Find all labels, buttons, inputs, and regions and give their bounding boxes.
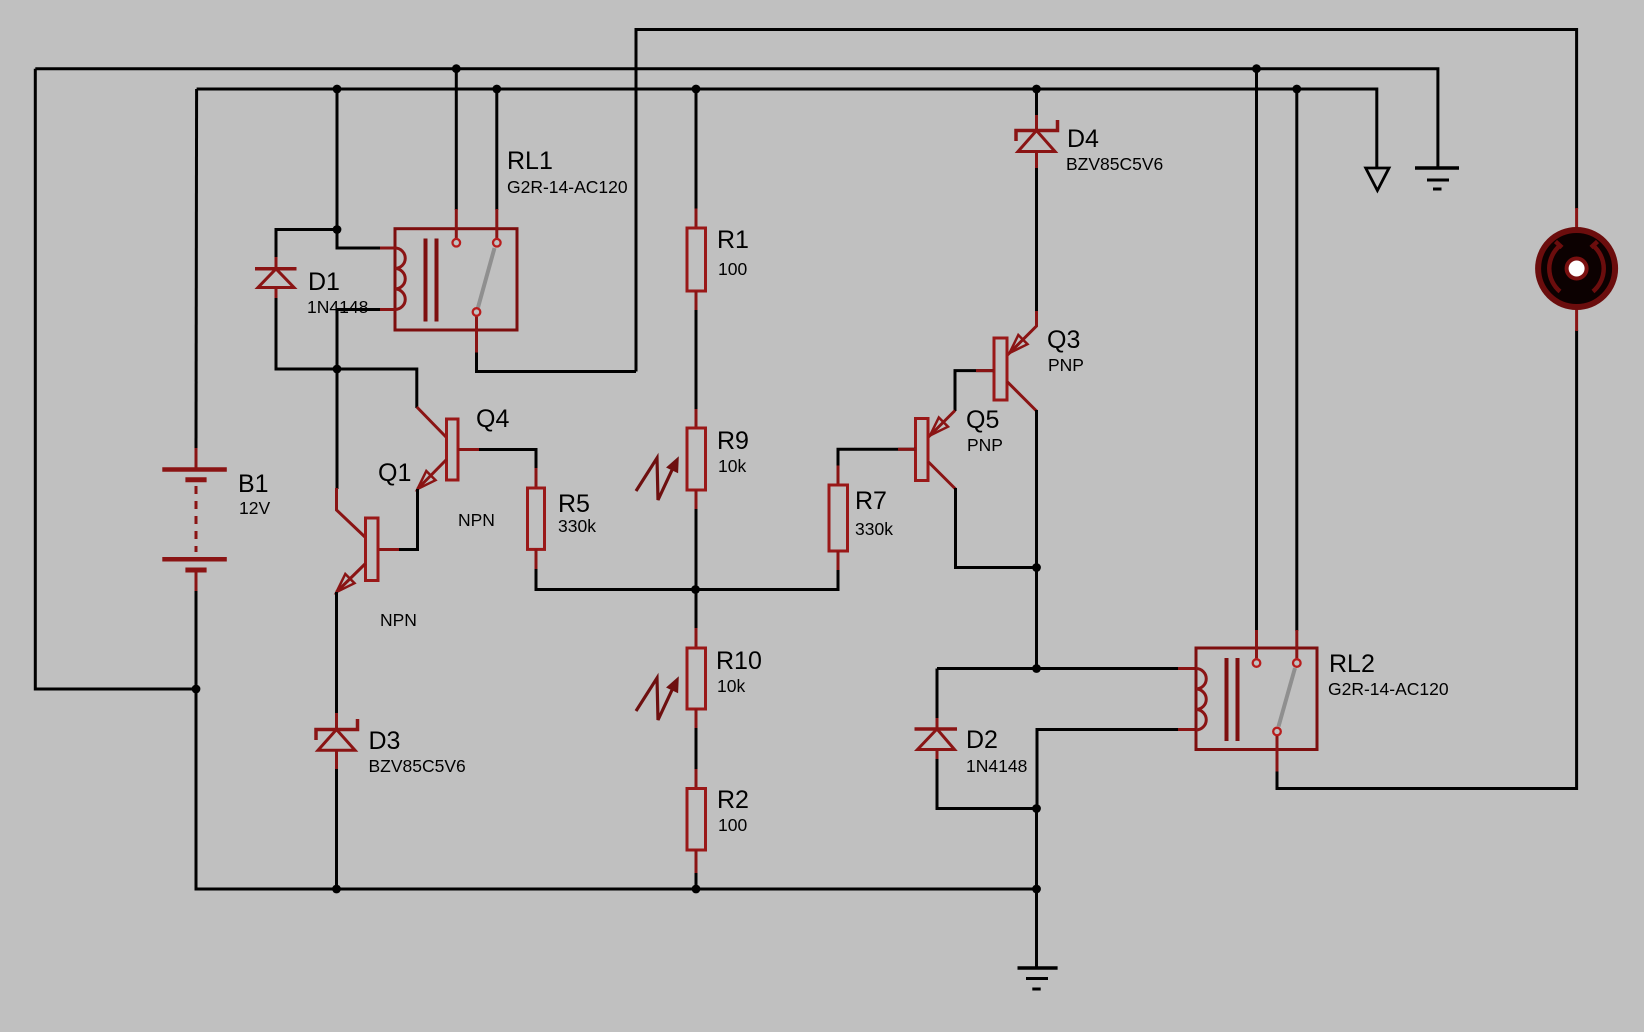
svg-text:G2R-14-AC120: G2R-14-AC120 [507, 177, 628, 197]
wire R9 to mid node [695, 509, 698, 590]
svg-text:D3: D3 [369, 727, 401, 755]
battery B1 [162, 448, 227, 591]
wire R7 top to Q5 base [838, 449, 916, 466]
svg-text:G2R-14-AC120: G2R-14-AC120 [1328, 679, 1449, 699]
svg-text:330k: 330k [558, 516, 596, 536]
wire rail2 y=89 from x=196.6 to x=1376.8 [197, 89, 1377, 168]
svg-text:Q1: Q1 [378, 459, 411, 487]
wire RL2 coil bottom to ground column [1037, 730, 1196, 809]
wire D4 to Q3 emitter [1035, 168, 1038, 312]
wire R10 to R2 [695, 728, 698, 770]
wire R1 column from rail2 [695, 89, 698, 210]
junction Q5/Q3 collector node [1032, 563, 1041, 572]
transistor Q5 emitter with arrow [928, 411, 956, 439]
junction on rail2 at RL2 right pin column [1292, 85, 1301, 94]
svg-text:BZV85C5V6: BZV85C5V6 [1066, 154, 1163, 174]
relay RL2 pin circles [1253, 659, 1301, 735]
junction on rail1 at RL1 left pin column [452, 64, 461, 73]
ground (bottom) [1018, 968, 1058, 989]
wire D4 column from rail2 [1035, 89, 1038, 117]
wire coil-column x=337 (rail2 to D1 top to coil top) [337, 89, 395, 248]
transistor Q3 emitter with arrow [1007, 311, 1037, 356]
label RL1 [507, 147, 628, 197]
R10 arrow symbol [636, 678, 678, 720]
wire Q4 base to R5 [458, 450, 536, 470]
wire top rail y=29.5 from x=636 to x=1576.6 [636, 30, 1577, 372]
svg-text:PNP: PNP [1048, 355, 1084, 375]
motor M1 leads [1575, 208, 1578, 331]
relay RL2 core bars [1227, 658, 1238, 741]
wire node row y=369 to Q4 collector riser [337, 369, 417, 489]
relay RL2 box [1196, 648, 1317, 750]
wire Q4 emitter to Q1 base [378, 489, 418, 550]
label R7 [855, 487, 893, 539]
junction R9/R10/R5/R7 mid node [691, 585, 700, 594]
svg-text:NPN: NPN [458, 510, 495, 530]
junction bottom rail / ground node [1032, 885, 1041, 894]
svg-text:1N4148: 1N4148 [966, 756, 1027, 776]
wire RL2 bottom pin to motor loop [1277, 330, 1577, 789]
wire Q3 collector column x=1036.5 [1035, 410, 1038, 568]
resistor R1 [687, 209, 706, 312]
label Q5 [966, 406, 1003, 455]
wire coil top row y=668.5 (D2 top to RL2 coil) [937, 667, 1196, 670]
svg-text:R9: R9 [717, 427, 749, 455]
wire ground column x=1036.5 [1035, 809, 1038, 968]
junction on rail2 at RL1 right pin column [492, 85, 501, 94]
zener D4 BZV85C5V6 [1016, 115, 1058, 169]
junction D1 bottom / coil / collector node [333, 365, 342, 374]
wire Q5 collector to junction [956, 488, 1037, 568]
svg-text:PNP: PNP [967, 435, 1003, 455]
label B1 [238, 470, 270, 518]
R9 arrow symbol [636, 458, 678, 500]
label D4 [1066, 125, 1163, 174]
svg-text:D1: D1 [308, 268, 340, 296]
wire mid node to R10 [695, 590, 698, 630]
junction on rail1 at RL2 left pin column [1252, 64, 1261, 73]
junction on rail2 at R1 column [692, 85, 701, 94]
label Q3 [1047, 326, 1084, 375]
label R10 [716, 647, 762, 696]
wire Q1 emitter to D3 [335, 592, 338, 715]
label D3 [369, 727, 466, 776]
label R9 [717, 427, 749, 476]
svg-text:D4: D4 [1067, 125, 1099, 153]
svg-text:10k: 10k [718, 456, 746, 476]
resistor R2 [687, 769, 706, 874]
transistor Q5 bar [916, 419, 929, 481]
resistor R9 (variable, LDR arrow) [687, 409, 706, 510]
wire R2 to bottom rail [695, 873, 698, 889]
ground (top right, arrow style) at x=1376.8 [1366, 168, 1389, 191]
wire RL2 left pin column x=1256.5 [1255, 69, 1258, 659]
wire RL1 left pin column x=456.3 [455, 69, 458, 238]
resistor R10 (variable, LDR arrow) [687, 628, 706, 729]
wire RL2 right pin column x=1296.8 [1295, 89, 1298, 658]
transistor Q1 collector lead [337, 488, 366, 538]
transistor Q1 emitter with arrow [337, 564, 366, 593]
svg-text:100: 100 [718, 259, 747, 279]
label R1 [717, 226, 749, 279]
relay RL1 coil [380, 248, 405, 310]
svg-text:R1: R1 [717, 226, 749, 254]
svg-text:10k: 10k [717, 676, 745, 696]
wire RL1 bottom pin to top rail riser x=636 [477, 317, 637, 372]
junction bottom rail at R2 column [692, 885, 701, 894]
transistor Q3 bar [994, 338, 1007, 400]
label R5 [558, 490, 596, 536]
svg-text:BZV85C5V6: BZV85C5V6 [369, 756, 466, 776]
zener D3 BZV85C5V6 [316, 713, 358, 770]
relay RL1 core bars [426, 239, 437, 322]
svg-text:R5: R5 [558, 490, 590, 518]
relay RL1 switch lever [478, 248, 495, 308]
label Q1 [378, 459, 411, 487]
svg-text:100: 100 [718, 815, 747, 835]
ground (top right, bar style) at x=1437.9 [1415, 168, 1459, 189]
diode D2 1N4148 [915, 718, 958, 759]
relay RL1 pin circles [453, 239, 501, 316]
label D1 [307, 268, 368, 317]
transistor Q4 bar [447, 419, 459, 480]
label NPN Q4 [458, 510, 495, 530]
resistor R7 [829, 466, 848, 572]
wire battery column x=196 [196, 89, 1037, 889]
junction battery minus / left wire node [192, 685, 201, 694]
svg-text:R10: R10 [716, 647, 762, 675]
svg-text:NPN: NPN [380, 610, 417, 630]
transistor Q1 bar [366, 518, 379, 581]
junction on rail2 at D4 column [1032, 85, 1041, 94]
label NPN Q1 [380, 610, 417, 630]
junction on rail2 at D1/coil column [333, 85, 342, 94]
wire RL1 right pin column x=496.8 [495, 89, 498, 238]
svg-text:D2: D2 [966, 726, 998, 754]
transistor Q3 collector lead [1007, 382, 1037, 412]
transistor Q4 collector lead [417, 407, 447, 438]
diode D1 1N4148 [255, 257, 297, 298]
junction RL2 coil top / D2 node [1032, 664, 1041, 673]
svg-text:Q4: Q4 [476, 405, 509, 433]
motor M1 [1538, 230, 1615, 307]
svg-text:B1: B1 [238, 470, 269, 498]
relay RL1 box [395, 229, 517, 330]
svg-text:RL2: RL2 [1329, 650, 1375, 678]
wire D3 to bottom rail [335, 769, 338, 889]
wire rail1 y=68.7 from x=35.3 to x=1437.9 with left drop [35, 69, 1438, 689]
svg-text:R2: R2 [717, 786, 749, 814]
svg-text:330k: 330k [855, 519, 893, 539]
wire Q3 base to Q5 emitter [955, 371, 994, 411]
junction D2 bottom node [1032, 804, 1041, 813]
svg-text:Q3: Q3 [1047, 326, 1080, 354]
wire R7 bottom to mid node [696, 570, 839, 590]
transistor Q5 collector lead [928, 462, 956, 490]
resistor R5 [528, 468, 545, 570]
label RL2 [1328, 650, 1449, 699]
wire R5 bottom to mid node [536, 569, 696, 590]
wire D1 column x=276 and top link y=229.5 [276, 230, 337, 370]
relay RL2 coil [1196, 669, 1206, 731]
svg-text:12V: 12V [239, 498, 270, 518]
label D2 [966, 726, 1027, 776]
wire D2 column x=937 [937, 669, 1037, 809]
svg-text:RL1: RL1 [507, 147, 553, 175]
wire R1 to R9 [695, 310, 698, 410]
junction D1 top node [333, 225, 342, 234]
svg-text:R7: R7 [855, 487, 887, 515]
svg-text:Q5: Q5 [966, 406, 999, 434]
relay RL2 switch lever [1279, 668, 1296, 727]
junction bottom rail at D3 column [332, 885, 341, 894]
label R2 [717, 786, 749, 835]
wire coil bottom to D1-bottom node [337, 310, 395, 370]
label Q4 [476, 405, 509, 433]
transistor Q4 emitter with arrow [418, 460, 447, 490]
wire junction column to coil-top node [1035, 568, 1038, 669]
